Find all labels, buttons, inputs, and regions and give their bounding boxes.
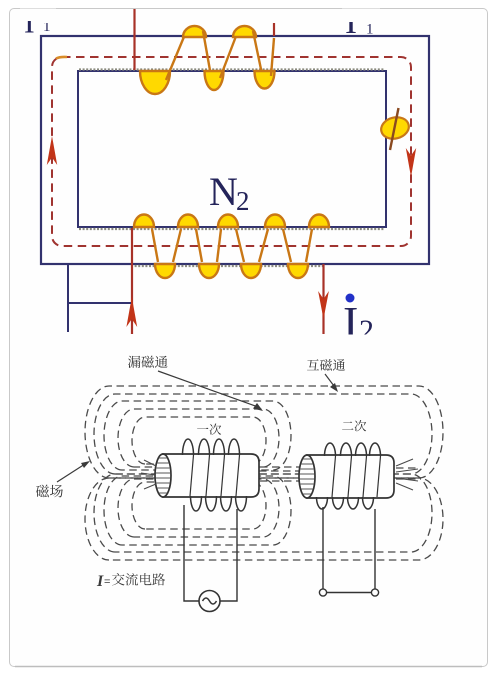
svg-text:=: =	[104, 576, 110, 588]
svg-text:1: 1	[366, 22, 374, 38]
svg-text:2: 2	[236, 186, 250, 216]
svg-text:N: N	[209, 169, 238, 214]
svg-text:I: I	[96, 573, 104, 590]
